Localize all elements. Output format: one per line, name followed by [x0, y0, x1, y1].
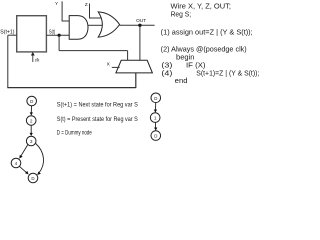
edge 2 to 3 — [30, 125, 32, 133]
wire Y input — [62, 1, 69, 21]
svg-text:(4): (4) — [161, 70, 172, 77]
edge D to 1 — [155, 103, 157, 111]
wire bottom feedback — [7, 87, 136, 89]
clk input arrow — [32, 54, 34, 63]
wire mux input 0 vertical — [127, 51, 129, 61]
junction dot S(t) — [58, 34, 61, 37]
svg-text:(2) Always @(posedge clk): (2) Always @(posedge clk) — [161, 46, 247, 53]
node 4 — [11, 158, 21, 168]
edge 1 to D — [154, 122, 156, 128]
wire AND output to OR — [88, 24, 103, 26]
svg-text:S(t+1) = Next state for Reg va: S(t+1) = Next state for Reg var S — [57, 103, 138, 109]
svg-text:D: D — [154, 134, 157, 139]
svg-text:begin: begin — [176, 54, 195, 61]
svg-text:Z: Z — [85, 2, 88, 7]
wire S(t) branch down — [58, 35, 60, 50]
wire OR output (OUT net) — [120, 24, 155, 26]
wire Z input — [90, 4, 102, 19]
node 1 — [150, 113, 160, 123]
svg-text:clk: clk — [35, 57, 40, 62]
wire X select input — [112, 66, 120, 68]
wire left vertical feedback — [7, 35, 9, 87]
wire OUT branch down to mux input 1 — [139, 25, 141, 60]
node D (right graph bottom) — [151, 131, 161, 141]
svg-text:D: D — [30, 99, 33, 104]
node D (left graph top) — [27, 96, 37, 106]
mux M1 — [116, 60, 152, 73]
svg-text:IF (X): IF (X) — [186, 62, 206, 69]
svg-text:end: end — [175, 78, 188, 85]
svg-text:D: D — [154, 96, 157, 101]
svg-text:S(t): S(t) — [49, 29, 55, 35]
svg-text:D = Dummy node: D = Dummy node — [57, 131, 92, 137]
svg-text:(3): (3) — [161, 62, 172, 69]
edge D to 2 — [30, 106, 32, 113]
svg-text:OUT: OUT — [136, 18, 146, 24]
node D (right graph top) — [151, 93, 161, 103]
svg-text:D: D — [31, 176, 34, 181]
svg-text:Y: Y — [55, 1, 58, 6]
svg-text:Wire X, Y, Z, OUT;: Wire X, Y, Z, OUT; — [171, 3, 232, 10]
junction dot OUT — [138, 24, 141, 27]
svg-text:(1) assign out=Z | (Y & S(t));: (1) assign out=Z | (Y & S(t)); — [161, 29, 253, 36]
wire S(t+1) stub — [8, 34, 17, 36]
edge 4 to D — [20, 166, 27, 172]
wire mux output vertical — [135, 73, 137, 88]
wire S(t) branch horizontal to mux — [59, 50, 128, 52]
svg-text:Reg S;: Reg S; — [171, 11, 192, 18]
OR gate — [98, 12, 119, 37]
register U1 (state register box) — [17, 16, 47, 52]
node 3 — [26, 136, 36, 146]
node D (left graph bottom) — [28, 173, 38, 183]
edge 3 to D (bypass curve) — [36, 144, 44, 174]
svg-text:S(t) = Present state for Reg v: S(t) = Present state for Reg var S — [57, 117, 138, 123]
node 2 — [26, 116, 36, 126]
svg-text:S(t+1): S(t+1) — [0, 29, 15, 35]
wire S(t) output — [46, 34, 69, 36]
svg-text:S(t+1)=Z | (Y & S(t));: S(t+1)=Z | (Y & S(t)); — [196, 70, 259, 77]
AND gate — [69, 16, 88, 40]
edge 3 to 4 — [21, 145, 28, 157]
